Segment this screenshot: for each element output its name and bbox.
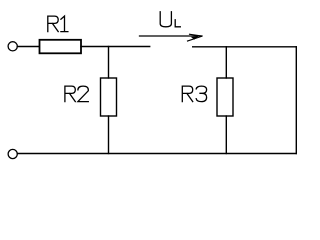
resistor R2 xyxy=(101,78,117,116)
wire junction down to R2 xyxy=(108,47,110,79)
label R2 xyxy=(65,86,88,102)
terminal circle bottom-left xyxy=(8,149,17,158)
wire right side vertical xyxy=(295,47,297,154)
wire from R3 bottom to bottom rail xyxy=(225,116,227,154)
wire from R2 bottom to bottom rail xyxy=(108,116,110,154)
resistor R1 xyxy=(40,40,82,54)
terminal circle top-left xyxy=(8,42,17,51)
label R3 xyxy=(182,86,206,102)
voltage arrow U_L xyxy=(140,34,203,41)
wire right top segment (gap to top-right corner) xyxy=(193,46,297,48)
resistor R3 xyxy=(217,78,233,116)
label U_L xyxy=(160,12,180,27)
wire from R1 to open gap (left top segment) xyxy=(81,46,150,48)
wire junction down to R3 xyxy=(225,47,227,78)
wire from top-left terminal to R1 xyxy=(17,46,39,48)
label R1 xyxy=(48,16,68,32)
bottom wire rail xyxy=(17,153,296,155)
